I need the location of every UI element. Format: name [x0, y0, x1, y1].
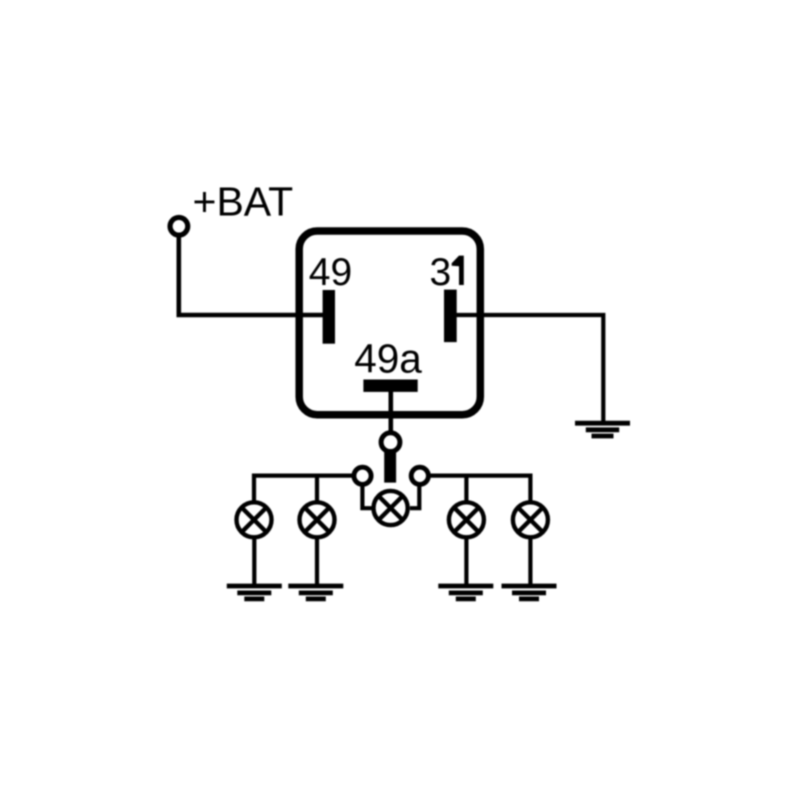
svg-text:3: 3 — [429, 251, 451, 294]
svg-text:+BAT: +BAT — [193, 179, 294, 225]
svg-text:49: 49 — [309, 251, 352, 294]
svg-text:49a: 49a — [354, 336, 422, 382]
